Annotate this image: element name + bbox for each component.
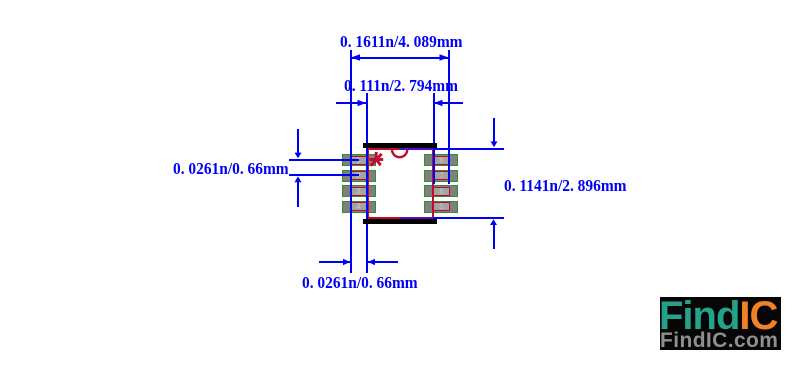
leader line to pad P2 [289, 174, 359, 176]
pad P2 land [342, 170, 377, 182]
arrowhead inner-right leftward [434, 100, 443, 106]
arrowhead top-left outward [351, 54, 360, 61]
dimension label 0.0261n/0.66mm (bottom) [302, 274, 418, 291]
arrowhead left down [295, 153, 302, 159]
body bottom edge overlap segment (purple) [400, 217, 434, 219]
pad P7 lead [433, 171, 450, 180]
dimension label 0.1611n/4.089mm [340, 33, 463, 50]
package body top bar (black) [363, 143, 437, 148]
pad P2 lead [350, 171, 367, 180]
pad P7 land [424, 170, 459, 182]
pad P8 land [424, 154, 459, 166]
arrowhead top-right outward [440, 54, 449, 61]
arrow stem left up [297, 182, 299, 207]
leader line to pad P1 [289, 159, 359, 161]
FindIC logo trace dot on C [764, 306, 768, 310]
pin number 8 [433, 157, 450, 165]
arrowhead bottom-dim left (points right) [343, 259, 350, 265]
pin number 5 [433, 203, 450, 211]
extension line x=448.5 (right outer) [448, 50, 450, 184]
dimension line 4.089mm (top) [351, 57, 449, 59]
FindIC logo trace dot on F [668, 306, 672, 310]
pin-1 orientation notch (red arc) [392, 150, 407, 158]
pad P5 lead [433, 202, 450, 211]
dimension line 0.66mm bottom left segment [319, 261, 350, 263]
arrow stem right down [493, 118, 495, 142]
pad P6 land [424, 185, 459, 197]
arrowhead right up [490, 219, 497, 225]
pad P8 lead [433, 156, 450, 165]
extension line right bottom (body bottom) [434, 217, 505, 219]
pad P5 land [424, 201, 459, 213]
arrowhead right down [491, 141, 498, 147]
pin number 4 [350, 203, 367, 211]
pad P1 lead (red rect) [350, 156, 367, 165]
pin number 6 [433, 188, 450, 196]
dimension label 0.1141n/2.896mm (right) [504, 177, 627, 194]
arrowhead left up [295, 176, 302, 182]
FindIC logo block [660, 297, 781, 350]
pin number 2 [350, 172, 367, 180]
body top edge overlap segment (purple) [400, 148, 434, 150]
arrow stem left down [297, 129, 299, 153]
dimension line 0.66mm bottom right segment [368, 261, 398, 263]
FindIC logo wordmark [659, 296, 781, 336]
arrowhead inner-left rightward [358, 100, 367, 106]
component body outline (red rect) [367, 148, 434, 219]
pad P3 land [342, 185, 377, 197]
pad P1 land (green outline + grey copper) [342, 154, 377, 166]
extension line right top (body top) [434, 148, 505, 150]
pin number 1 [350, 157, 367, 165]
package body bottom bar (black) [363, 219, 437, 224]
pin number 7 [433, 172, 450, 180]
dimension label 0.0261n/0.66mm (left) [173, 160, 289, 177]
dimension line 2.794mm right segment [434, 102, 463, 104]
arrowhead bottom-dim right (points left) [368, 259, 375, 265]
pin-1 marker (red asterisk) [370, 152, 384, 166]
dimension label 0.111n/2.794mm [344, 77, 458, 94]
extension line x=366.5 (left inner) [366, 93, 368, 273]
pin number 3 [350, 188, 367, 196]
dimension line 2.794mm left segment [336, 102, 366, 104]
pad P3 lead [350, 187, 367, 196]
arrow stem right up [493, 225, 495, 249]
pad P4 land [342, 201, 377, 213]
extension line x=434 (right inner) [433, 93, 435, 184]
pad P6 lead [433, 187, 450, 196]
FindIC logo trace dot on n [704, 316, 708, 320]
extension line x=351 (left outer) [350, 50, 352, 273]
pad P4 lead [350, 202, 367, 211]
FindIC logo trace dot on d [726, 312, 730, 316]
FindIC.com caption [660, 331, 781, 350]
